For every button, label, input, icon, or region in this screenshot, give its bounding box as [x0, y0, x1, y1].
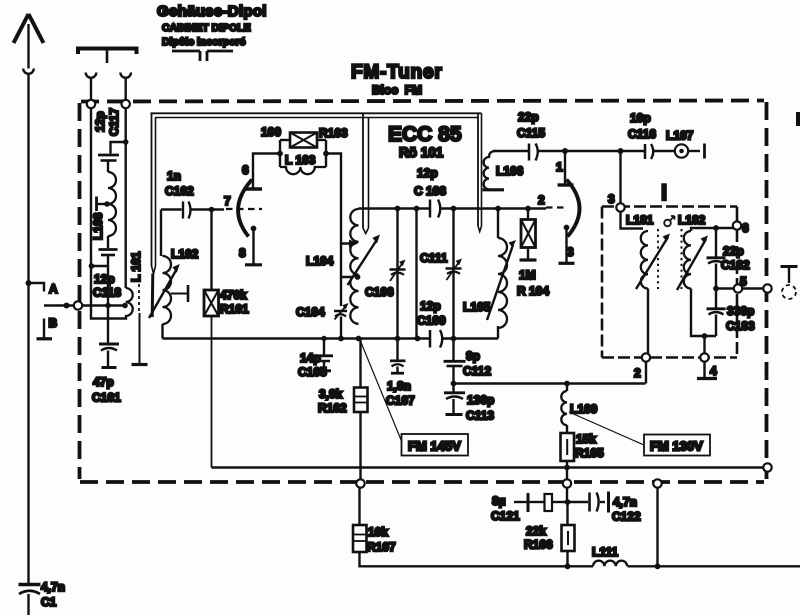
svg-text:L104: L104 — [306, 254, 334, 268]
callout box FM 130V — [569, 412, 644, 445]
feed-through L107 — [675, 144, 688, 157]
capacitor C112 — [452, 339, 454, 361]
svg-text:C122: C122 — [612, 510, 641, 524]
wire: stub to terminal A — [29, 283, 45, 292]
L102 tap to chassis bar — [171, 293, 188, 295]
capacitor C107 — [396, 339, 398, 360]
svg-text:I: I — [661, 180, 667, 205]
svg-text:12p: 12p — [93, 111, 107, 132]
svg-text:Rö 101: Rö 101 — [399, 145, 444, 160]
svg-text:C118: C118 — [93, 286, 121, 300]
inductor L106 — [484, 151, 496, 189]
inner shield: middle wall — [362, 113, 364, 228]
node B stub wire — [43, 319, 45, 338]
svg-text:C113: C113 — [466, 409, 494, 423]
lower oscillator rail — [163, 337, 430, 339]
svg-text:C111: C111 — [420, 251, 448, 265]
svg-text:C116: C116 — [628, 127, 656, 141]
svg-text:C105: C105 — [298, 365, 327, 379]
L102 adjust arrow — [149, 270, 177, 319]
svg-text:22p: 22p — [518, 110, 539, 124]
L108 tap wire to chassis — [97, 203, 108, 205]
node dot at C117 branch — [123, 139, 129, 145]
wire: antenna down-lead rail — [27, 24, 29, 69]
triode 1 cathode (pin 8) to chassis — [251, 226, 257, 232]
chassis / feed bus wire — [212, 466, 765, 468]
wire: from border circle down to bottom line — [656, 488, 658, 567]
svg-text:Dipôle incorporé: Dipôle incorporé — [162, 36, 246, 48]
svg-text:22k: 22k — [526, 524, 546, 538]
trimmer C111 — [452, 209, 454, 339]
svg-text:9p: 9p — [466, 349, 480, 363]
L105 adjust arrow — [487, 245, 513, 320]
pin 4 chassis bar — [703, 362, 705, 377]
svg-text:3: 3 — [567, 245, 574, 259]
variable inductor L182 — [684, 231, 691, 289]
terminal circle on border (A line) — [74, 301, 82, 309]
wire: left rail of input filter — [91, 108, 126, 318]
triode 1 cathode envelope arc — [238, 180, 252, 237]
capacitor C101 — [107, 306, 109, 344]
svg-text:Bloc FM: Bloc FM — [372, 83, 422, 97]
variable inductor L102 — [163, 256, 172, 324]
wire: pin3 to L181 — [621, 212, 644, 229]
wire L108 to C118 — [107, 236, 109, 248]
svg-text:R105: R105 — [575, 446, 604, 460]
svg-text:FM-Tuner: FM-Tuner — [351, 62, 443, 83]
antenna lead break (socket) symbol — [23, 69, 34, 74]
capacitor C115 (series) — [528, 144, 531, 161]
svg-text:3,9k: 3,9k — [319, 387, 343, 401]
triode 2 anode (pin 1) — [558, 183, 574, 186]
output terminal symbol — [781, 265, 798, 268]
svg-text:2: 2 — [538, 193, 545, 207]
wire: C102 down to L102 — [160, 210, 162, 257]
svg-text:47p: 47p — [93, 375, 114, 389]
wire: pin 2 down to feed line — [645, 362, 647, 384]
svg-text:L108: L108 — [91, 212, 105, 240]
svg-text:L181: L181 — [626, 213, 654, 227]
svg-text:22p: 22p — [723, 244, 744, 258]
svg-text:L 103: L 103 — [285, 153, 316, 167]
svg-text:FM 145V: FM 145V — [408, 439, 461, 454]
svg-text:C183: C183 — [726, 319, 755, 333]
ground bar at B — [37, 337, 53, 340]
svg-text:15k: 15k — [576, 432, 596, 446]
svg-text:8: 8 — [239, 246, 246, 260]
L102 core line — [151, 274, 155, 318]
svg-text:C112: C112 — [463, 364, 491, 378]
svg-text:R107: R107 — [367, 540, 396, 554]
small cut label at right edge — [796, 112, 800, 126]
resistor R101 (grid leak) — [209, 207, 215, 213]
pin 4 terminal circle — [700, 353, 708, 361]
svg-text:5: 5 — [740, 275, 747, 289]
antenna arrow symbol — [14, 14, 44, 43]
L181 adjust arrow — [636, 237, 668, 289]
svg-text:C1: C1 — [41, 595, 57, 609]
wire: pin 5 output — [713, 286, 719, 292]
wire: L102 bottom to lower rail — [161, 324, 163, 339]
svg-text:2: 2 — [634, 366, 641, 380]
svg-text:L 101: L 101 — [129, 251, 143, 282]
svg-text:1M: 1M — [519, 268, 536, 282]
outer dashed shield border of FM tuner — [80, 101, 767, 483]
terminal circle R105 line crosses border — [563, 479, 571, 487]
inductor L111 (in line) — [593, 561, 627, 567]
capacitor C109 (series) — [429, 330, 432, 348]
svg-text:100: 100 — [261, 125, 281, 139]
svg-text:1n: 1n — [167, 169, 181, 183]
capacitor C116 (series) — [644, 144, 647, 159]
L101 core line with chassis bar — [138, 284, 140, 313]
svg-text:C109: C109 — [417, 314, 446, 328]
wire: L182 bottom / C183 to pin 4 — [691, 289, 716, 337]
svg-text:A: A — [49, 282, 58, 296]
svg-text:L106: L106 — [496, 164, 524, 178]
pin 3 terminal circle — [616, 203, 624, 211]
svg-text:C 108: C 108 — [414, 184, 446, 198]
triode 2 cathode (pin 3) to chassis — [564, 225, 570, 231]
svg-text:C101: C101 — [92, 391, 121, 405]
svg-text:4,7n: 4,7n — [613, 495, 637, 509]
svg-text:FM 130V: FM 130V — [650, 439, 703, 454]
IF transformer dashed box — [602, 207, 737, 358]
L104 adjust arrow — [348, 240, 378, 286]
svg-text:1,8n: 1,8n — [387, 379, 411, 393]
node: junction dot to A stub — [26, 280, 32, 286]
wire: junction to IF transformer pin 3 — [618, 148, 624, 154]
svg-text:10k: 10k — [368, 525, 388, 539]
L182 adjust arrow — [677, 239, 706, 290]
svg-text:6: 6 — [242, 163, 249, 177]
resistor R105 — [561, 433, 575, 461]
inner shield: left wall (tapered end, holds L102 core) — [151, 113, 153, 266]
dipole lead socket symbols — [86, 73, 97, 78]
junction of C121/C122/R106/R105 — [565, 499, 571, 505]
svg-text:C106: C106 — [365, 285, 394, 299]
wire: right lead down to C117 — [124, 108, 126, 142]
variable inductor L181 — [641, 231, 648, 289]
svg-text:470k: 470k — [220, 288, 247, 302]
inductor L108 (tapped) — [108, 172, 116, 236]
svg-text:14p: 14p — [300, 351, 321, 365]
resistor R103 (crossed box) — [280, 139, 290, 141]
svg-text:4: 4 — [710, 364, 717, 378]
svg-text:3: 3 — [608, 192, 615, 206]
trimmer C106 — [396, 209, 398, 339]
callout box FM 145V — [360, 340, 402, 441]
svg-text:C107: C107 — [386, 394, 415, 408]
capacitor C108 (series) — [429, 200, 432, 218]
wire: antenna input A line — [44, 304, 126, 306]
svg-text:C104: C104 — [296, 305, 325, 319]
svg-text:4,7n: 4,7n — [41, 580, 65, 594]
wire: dipole leads to terminals — [90, 78, 92, 100]
svg-text:L105: L105 — [463, 300, 491, 314]
resistor R102 — [359, 339, 361, 388]
svg-text:7: 7 — [224, 194, 231, 208]
svg-text:R 104: R 104 — [517, 284, 549, 298]
adjustment symbol — [664, 220, 671, 227]
capacitor C102 — [161, 208, 182, 210]
variable capacitor C104 — [334, 310, 347, 313]
triode 1 anode plate (pin 6) — [244, 187, 262, 190]
svg-text:CABINET DIPOLE: CABINET DIPOLE — [162, 22, 251, 34]
svg-text:12p: 12p — [417, 166, 438, 180]
svg-text:10p: 10p — [630, 111, 651, 125]
capacitor C182 — [715, 228, 717, 257]
capacitor C1 — [19, 583, 41, 586]
triode 1 grid dashes (pin 7) — [226, 208, 262, 210]
L181 core (dotted) — [657, 229, 659, 289]
svg-text:12p: 12p — [420, 299, 441, 313]
L182 core (dotted) — [681, 229, 683, 289]
svg-text:130p: 130p — [467, 393, 494, 407]
svg-text:330p: 330p — [727, 304, 754, 318]
inductor L101 — [124, 142, 126, 288]
wire: L182 top to pin 6 — [691, 228, 733, 231]
resistor R106 — [566, 502, 568, 525]
svg-text:8µ: 8µ — [492, 494, 506, 508]
svg-text:L102: L102 — [171, 247, 199, 261]
svg-text:R103: R103 — [319, 126, 348, 140]
dipole pictogram icon — [172, 51, 233, 61]
chassis bar at L108 tap — [95, 197, 98, 212]
pin 6 terminal circle — [733, 221, 741, 229]
wire: rail continues to C1 — [27, 74, 29, 583]
triode 2 grid wire (pin 2) — [546, 206, 568, 208]
wire: branch from top rail down to C109 line — [415, 209, 417, 339]
svg-text:R101: R101 — [220, 302, 249, 316]
wire: to second tap and C104 — [341, 244, 353, 278]
svg-text:6: 6 — [742, 221, 749, 235]
wire: +130V feed line — [454, 382, 646, 384]
resistor R104 (crossed box) — [527, 209, 529, 220]
inner shield: top double line — [151, 112, 482, 114]
inner shield: right wall — [477, 113, 479, 226]
variable inductor L105 — [497, 209, 499, 239]
dipole antenna symbol — [78, 49, 137, 55]
electrolytic C121 — [514, 501, 527, 503]
capacitor C122 — [570, 501, 588, 503]
capacitor C118 — [99, 248, 118, 251]
capacitor C113 — [452, 384, 454, 392]
svg-text:L107: L107 — [666, 129, 694, 143]
svg-text:C117: C117 — [107, 108, 121, 136]
terminal circles on border — [87, 100, 95, 108]
svg-text:Gehäuse-Dipol: Gehäuse-Dipol — [157, 3, 267, 20]
inductor L103 — [280, 167, 326, 174]
wire: bottom line to edge — [628, 565, 800, 567]
svg-text:1: 1 — [556, 160, 563, 174]
variable inductor L104 — [350, 209, 358, 324]
svg-text:C182: C182 — [721, 258, 750, 272]
capacitor C183 — [715, 289, 717, 308]
inductor L109 — [566, 384, 568, 392]
pin 2 terminal circle — [642, 353, 650, 361]
svg-text:L111: L111 — [592, 545, 618, 559]
wire: jog to C117 — [111, 142, 126, 154]
parallel R103 / L103 block — [277, 151, 283, 157]
triode 2 cathode envelope arc — [567, 180, 580, 237]
capacitor C117 — [98, 154, 119, 157]
wire: plate line with C115 — [493, 150, 528, 152]
svg-text:C102: C102 — [165, 184, 194, 198]
svg-text:ECC 85: ECC 85 — [388, 123, 462, 146]
svg-text:L182: L182 — [678, 213, 706, 227]
main oscillator rail (top) — [359, 207, 430, 209]
svg-text:12p: 12p — [94, 272, 115, 286]
svg-text:C115: C115 — [517, 126, 545, 140]
svg-text:R102: R102 — [318, 401, 347, 415]
svg-text:C121: C121 — [491, 509, 520, 523]
capacitor C105 — [323, 339, 325, 355]
wire: anode to L104 tap — [326, 154, 349, 244]
wire: C118 jog to left rail — [91, 265, 108, 267]
svg-text:B: B — [49, 316, 58, 330]
resistor R107 — [356, 479, 364, 487]
svg-text:R106: R106 — [524, 538, 553, 552]
terminal circle where bus exits border — [763, 463, 771, 471]
